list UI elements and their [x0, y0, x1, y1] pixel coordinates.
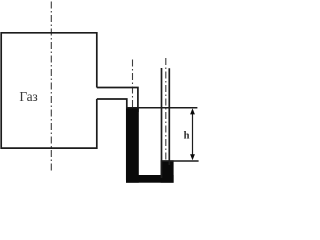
- dimension line h: [192, 110, 194, 158]
- svg-text:h: h: [184, 130, 190, 141]
- dimension arrowhead down: [190, 154, 195, 160]
- svg-text:Газ: Газ: [19, 89, 37, 104]
- right tube axis centerline (dash-dot): [165, 58, 167, 160]
- dimension arrowhead up: [190, 108, 195, 114]
- right narrow tube right wall: [168, 68, 170, 165]
- connecting neck bottom wall, continuing as left-arm left wall: [97, 99, 127, 180]
- gas vessel outline: [1, 33, 97, 148]
- vessel axis centerline (dash-dot): [50, 2, 52, 173]
- left arm axis centerline (dash-dot): [132, 60, 134, 109]
- lower liquid level line (right tube level): [161, 160, 199, 162]
- right narrow tube left wall: [161, 68, 163, 178]
- liquid in right arm (black column): [161, 160, 174, 182]
- liquid in left arm (black column): [126, 107, 139, 183]
- connecting neck top wall, continuing as left-arm right wall: [97, 88, 138, 113]
- liquid in U-tube bottom (black connector): [126, 175, 174, 183]
- upper liquid level line (left arm level): [126, 107, 197, 109]
